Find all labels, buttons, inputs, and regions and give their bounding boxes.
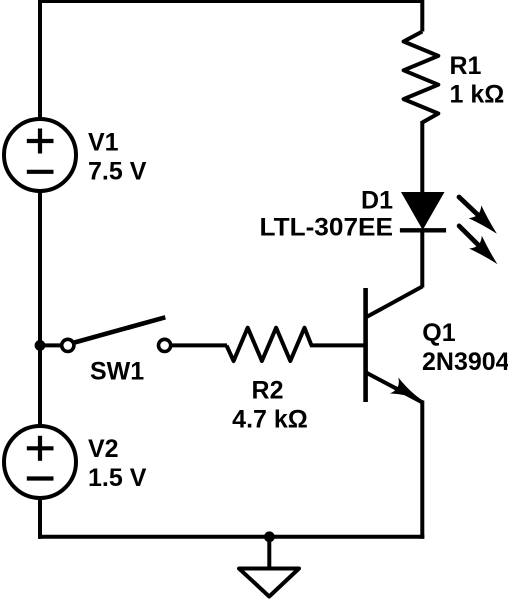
- wire R1 to D1: [420, 121, 424, 193]
- svg-text:V1: V1: [88, 129, 119, 157]
- LED emission arrow 2: [459, 226, 497, 264]
- resistor R2: [227, 328, 312, 361]
- label V2: [88, 435, 147, 492]
- wire bottom rail: [38, 535, 424, 539]
- ground: [239, 569, 299, 597]
- wire junction to SW1: [40, 343, 62, 347]
- svg-text:2N3904: 2N3904: [422, 348, 508, 376]
- node junction dot at ground: [264, 531, 275, 542]
- voltage source V2: [4, 426, 76, 498]
- svg-text:V2: V2: [88, 435, 119, 463]
- svg-text:4.7 kΩ: 4.7 kΩ: [232, 406, 308, 434]
- LED emission arrow 1: [459, 197, 497, 234]
- ground stub wire: [267, 537, 271, 570]
- LED D1: [400, 192, 446, 230]
- switch SW1: [62, 317, 171, 351]
- svg-text:Q1: Q1: [422, 319, 455, 347]
- label R1: [450, 52, 505, 109]
- label Q1: [422, 319, 508, 376]
- transistor Q1: [366, 288, 423, 402]
- wire left middle (V1 bottom to V2 top): [38, 189, 42, 429]
- voltage source V1: [4, 119, 76, 191]
- label D1: [260, 187, 394, 242]
- label R2: [232, 377, 308, 434]
- wire switch to R2: [171, 343, 227, 347]
- resistor R1: [404, 32, 439, 123]
- svg-text:7.5 V: 7.5 V: [88, 157, 147, 185]
- label V1: [88, 129, 147, 186]
- wire top rail: [40, 1, 422, 122]
- svg-text:R1: R1: [450, 52, 482, 80]
- wire left bottom (V2 bottom to bottom rail): [38, 495, 42, 539]
- label SW1: [90, 357, 144, 385]
- svg-text:D1: D1: [361, 187, 393, 215]
- svg-text:R2: R2: [252, 377, 284, 405]
- wire Q1 emitter vertical: [420, 401, 424, 539]
- wire D1 to Q1 collector: [420, 229, 424, 288]
- svg-text:SW1: SW1: [90, 357, 144, 385]
- node junction dot at SW1: [35, 340, 46, 351]
- wire R2 to Q1 base: [310, 343, 364, 347]
- node Q1 collector diagonal: [366, 287, 422, 318]
- svg-text:1 kΩ: 1 kΩ: [450, 81, 505, 109]
- svg-text:1.5 V: 1.5 V: [88, 464, 147, 492]
- svg-text:LTL-307EE: LTL-307EE: [260, 214, 394, 242]
